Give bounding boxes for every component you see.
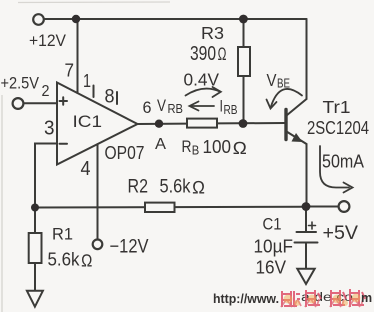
wire op-amp output bbox=[138, 123, 188, 125]
op-amp minus sign bbox=[60, 143, 68, 145]
svg-text:V: V bbox=[157, 97, 166, 115]
svg-text:10µF: 10µF bbox=[254, 237, 294, 257]
svg-text:+2.5V: +2.5V bbox=[1, 74, 40, 93]
wire emitter drop bbox=[306, 144, 308, 207]
resistor R3 390ohm bbox=[238, 47, 250, 76]
svg-text:R3: R3 bbox=[201, 23, 224, 43]
pin 1 tick bbox=[93, 86, 95, 98]
svg-text:R: R bbox=[182, 138, 192, 156]
junction feedback node bbox=[31, 204, 39, 212]
scan edge artifact left bbox=[1, 95, 3, 312]
svg-text:1: 1 bbox=[83, 71, 91, 91]
terminal +5V bbox=[339, 201, 350, 212]
svg-text:RB: RB bbox=[168, 102, 184, 116]
svg-text:R1: R1 bbox=[52, 226, 73, 244]
wire collector drop bbox=[306, 19, 308, 99]
wire top rail bbox=[44, 18, 307, 20]
transistor Q1 base bar bbox=[284, 110, 287, 140]
svg-text:OP07: OP07 bbox=[105, 142, 145, 163]
wire noninverting input bbox=[24, 102, 57, 104]
watermark stamp legs bbox=[281, 299, 363, 307]
wire C1 to ground bbox=[305, 243, 307, 269]
op-amp plus sign bbox=[60, 97, 68, 105]
svg-text:6: 6 bbox=[143, 98, 152, 117]
wire R1 bottom bbox=[34, 263, 36, 291]
arrow VRB-IRB left bbox=[191, 105, 214, 107]
ground under C1 bbox=[297, 269, 314, 284]
wire R1 top bbox=[34, 208, 36, 234]
watermark red stamp bbox=[282, 289, 365, 307]
resistor R1 5.6k bbox=[29, 233, 42, 263]
capacitor C1 bottom plate bbox=[295, 242, 318, 244]
svg-text:Ω: Ω bbox=[81, 251, 93, 271]
svg-text:IC1: IC1 bbox=[73, 113, 103, 131]
svg-text:http://www.: http://www. bbox=[213, 291, 279, 306]
capacitor C1 top plate bbox=[297, 231, 317, 233]
scan edge artifact top bbox=[18, 1, 170, 4]
junction output node bbox=[302, 202, 311, 211]
svg-text:390: 390 bbox=[190, 43, 216, 65]
wire output row bbox=[35, 206, 307, 209]
svg-text:2: 2 bbox=[42, 83, 50, 100]
svg-text:B: B bbox=[192, 144, 200, 158]
wire pin 7 bbox=[77, 19, 79, 93]
svg-text:V: V bbox=[267, 70, 277, 90]
svg-text:I: I bbox=[220, 98, 224, 116]
svg-text:4: 4 bbox=[81, 157, 91, 180]
watermark stamp highlight bbox=[284, 294, 361, 307]
svg-text:+5V: +5V bbox=[323, 222, 359, 244]
svg-text:Ω: Ω bbox=[218, 44, 227, 64]
svg-text:R2: R2 bbox=[128, 177, 149, 198]
transistor Q1 collector diagonal bbox=[287, 99, 307, 116]
svg-text:m: m bbox=[361, 291, 372, 305]
node A dot bbox=[155, 120, 163, 128]
svg-text:−12V: −12V bbox=[110, 237, 149, 258]
svg-text:Ω: Ω bbox=[192, 178, 205, 198]
junction RB-R3-base bbox=[239, 119, 248, 128]
wire R3 top bbox=[243, 19, 245, 47]
wire pin 4 to -12V bbox=[97, 144, 99, 239]
terminal +2.5V bbox=[13, 98, 24, 109]
svg-text:RB: RB bbox=[224, 103, 238, 117]
svg-text:16V: 16V bbox=[256, 257, 287, 278]
wire RB to base bbox=[217, 122, 285, 124]
svg-text:3: 3 bbox=[44, 117, 55, 140]
svg-text:0.4V: 0.4V bbox=[184, 70, 220, 90]
junction top R3 bbox=[239, 15, 248, 24]
svg-text:5.6k: 5.6k bbox=[160, 177, 191, 198]
svg-text:A: A bbox=[155, 136, 166, 153]
svg-text:Tr1: Tr1 bbox=[323, 97, 351, 117]
resistor RB 100ohm bbox=[187, 119, 217, 128]
op-amp U1 IC1 triangle bbox=[57, 83, 138, 165]
junction top pin7 bbox=[72, 15, 80, 23]
transistor emitter arrowhead bbox=[292, 133, 303, 142]
transistor Q1 emitter diagonal bbox=[287, 132, 307, 145]
ground under R1 bbox=[27, 291, 43, 307]
terminal +12V bbox=[33, 14, 44, 25]
svg-text:8: 8 bbox=[105, 87, 115, 108]
pin 8 tick bbox=[116, 92, 118, 104]
svg-text:50mA: 50mA bbox=[322, 152, 364, 172]
svg-text:BE: BE bbox=[277, 77, 290, 91]
svg-text:7: 7 bbox=[65, 61, 75, 81]
svg-text:C1: C1 bbox=[263, 216, 282, 234]
svg-text:Ω: Ω bbox=[233, 138, 248, 158]
arrow arc VBE bbox=[271, 89, 302, 107]
arrow arc 0.4V bbox=[186, 89, 221, 96]
wire R3 bottom bbox=[243, 76, 245, 123]
svg-text:2SC1204: 2SC1204 bbox=[307, 118, 369, 138]
svg-text:100: 100 bbox=[203, 137, 232, 157]
arrow 50mA bbox=[320, 146, 349, 188]
wire inverting input feedback bbox=[35, 144, 57, 208]
wire to +5V terminal bbox=[307, 206, 339, 208]
resistor R2 5.6k bbox=[145, 203, 175, 212]
wire C1 stub bbox=[305, 207, 307, 232]
svg-text:+12V: +12V bbox=[29, 31, 67, 50]
terminal -12V bbox=[93, 240, 103, 250]
capacitor plus sign bbox=[309, 222, 316, 229]
svg-text:5.6k: 5.6k bbox=[48, 250, 81, 270]
